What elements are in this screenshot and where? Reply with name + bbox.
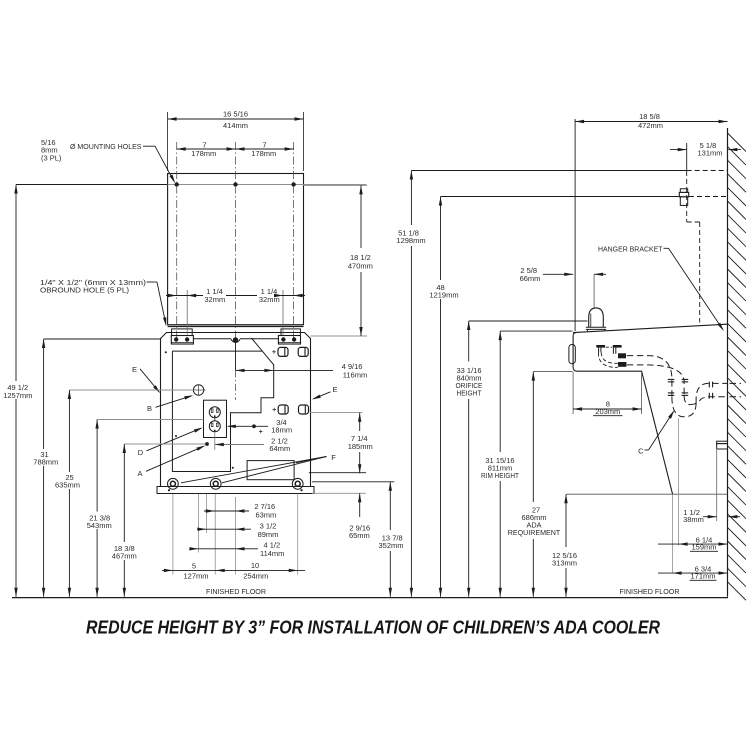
svg-text:65mm: 65mm xyxy=(349,531,370,540)
svg-text:FINISHED FLOOR: FINISHED FLOOR xyxy=(620,587,681,596)
svg-text:159mm: 159mm xyxy=(691,543,716,552)
svg-text:16 5/16: 16 5/16 xyxy=(223,110,248,119)
svg-text:127mm: 127mm xyxy=(183,571,208,580)
svg-text:F: F xyxy=(331,453,336,462)
svg-text:467mm: 467mm xyxy=(112,552,137,561)
svg-text:E: E xyxy=(132,365,137,374)
svg-text:185mm: 185mm xyxy=(348,442,373,451)
svg-text:4 9/16: 4 9/16 xyxy=(342,362,363,371)
svg-text:32mm: 32mm xyxy=(259,295,280,304)
svg-text:D: D xyxy=(138,448,144,457)
svg-text:178mm: 178mm xyxy=(251,149,276,158)
svg-text:A: A xyxy=(137,469,142,478)
svg-text:7: 7 xyxy=(262,140,266,149)
svg-text:HEIGHT: HEIGHT xyxy=(457,388,482,397)
svg-text:543mm: 543mm xyxy=(87,521,112,530)
svg-text:OBROUND HOLE (5 PL): OBROUND HOLE (5 PL) xyxy=(40,285,130,294)
svg-text:18mm: 18mm xyxy=(271,425,292,434)
svg-text:Ø MOUNTING HOLES: Ø MOUNTING HOLES xyxy=(70,142,142,151)
svg-text:472mm: 472mm xyxy=(638,121,663,130)
svg-text:32mm: 32mm xyxy=(204,295,225,304)
svg-text:7: 7 xyxy=(202,140,206,149)
svg-text:64mm: 64mm xyxy=(269,444,290,453)
svg-text:10: 10 xyxy=(251,561,259,570)
svg-text:131mm: 131mm xyxy=(697,149,722,158)
svg-text:(3 PL): (3 PL) xyxy=(41,153,62,162)
svg-text:REQUIREMENT: REQUIREMENT xyxy=(508,528,561,537)
svg-text:38mm: 38mm xyxy=(683,515,704,524)
svg-text:RIM HEIGHT: RIM HEIGHT xyxy=(481,471,519,480)
svg-text:1219mm: 1219mm xyxy=(429,291,458,300)
svg-text:5: 5 xyxy=(192,562,196,571)
svg-text:63mm: 63mm xyxy=(255,511,276,520)
svg-text:254mm: 254mm xyxy=(243,571,268,580)
svg-text:352mm: 352mm xyxy=(378,541,403,550)
svg-text:B: B xyxy=(147,404,152,413)
svg-text:66mm: 66mm xyxy=(520,274,541,283)
svg-text:178mm: 178mm xyxy=(191,149,216,158)
svg-text:116mm: 116mm xyxy=(343,371,367,380)
svg-text:C: C xyxy=(638,446,644,455)
svg-text:414mm: 414mm xyxy=(223,121,248,130)
svg-text:REDUCE HEIGHT BY 3” FOR INSTAL: REDUCE HEIGHT BY 3” FOR INSTALLATION OF … xyxy=(86,617,661,637)
svg-text:788mm: 788mm xyxy=(33,457,58,466)
svg-text:114mm: 114mm xyxy=(260,549,284,558)
svg-text:1257mm: 1257mm xyxy=(3,391,32,400)
svg-text:635mm: 635mm xyxy=(55,481,80,490)
svg-text:18 5/8: 18 5/8 xyxy=(639,112,660,121)
svg-text:HANGER BRACKET: HANGER BRACKET xyxy=(598,244,663,253)
svg-text:89mm: 89mm xyxy=(258,530,279,539)
svg-text:171mm: 171mm xyxy=(690,572,715,581)
svg-text:470mm: 470mm xyxy=(348,262,373,271)
svg-text:E: E xyxy=(332,385,337,394)
svg-text:FINISHED FLOOR: FINISHED FLOOR xyxy=(206,587,267,596)
svg-text:1298mm: 1298mm xyxy=(396,236,425,245)
svg-text:313mm: 313mm xyxy=(552,558,577,567)
svg-text:203mm: 203mm xyxy=(595,407,620,416)
